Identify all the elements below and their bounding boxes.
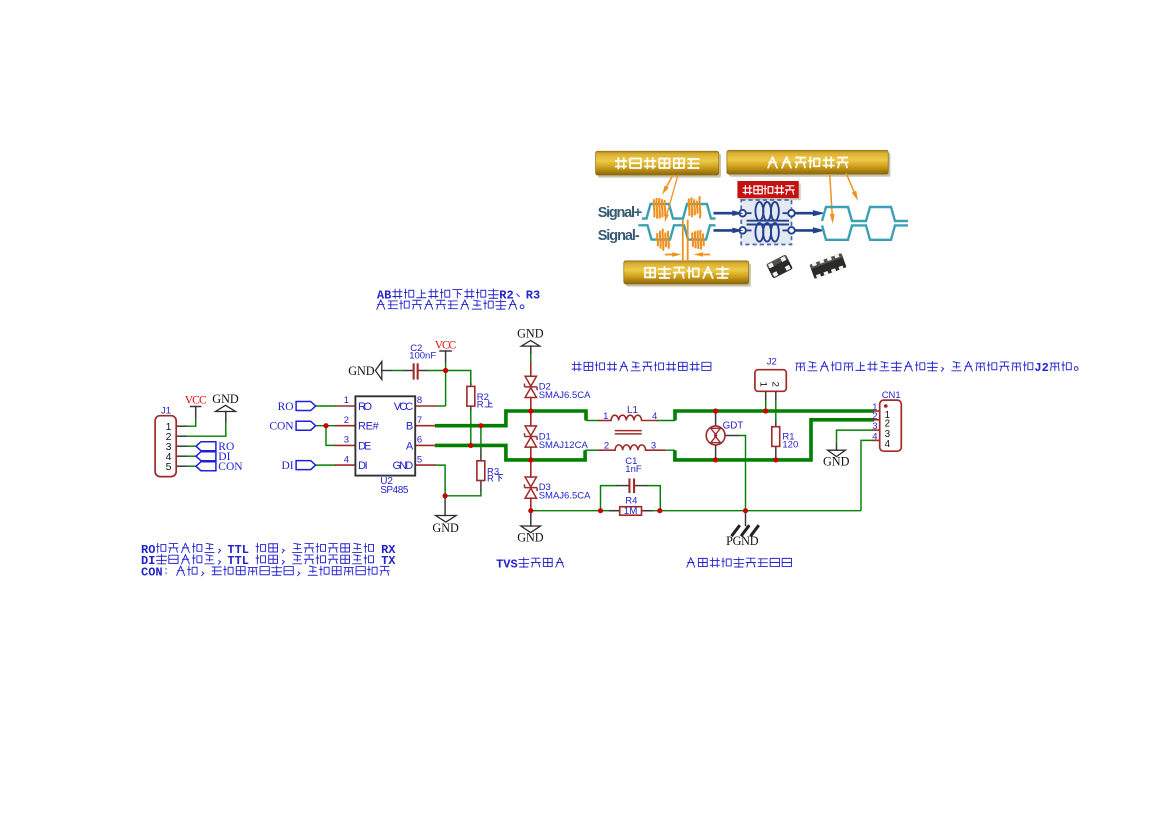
svg-text:5: 5 bbox=[417, 454, 422, 465]
svg-text:1: 1 bbox=[603, 411, 608, 422]
svg-text:GND: GND bbox=[348, 364, 375, 378]
svg-text:RO: RO bbox=[358, 401, 372, 413]
svg-text:J2: J2 bbox=[1034, 361, 1048, 375]
svg-text:VCC: VCC bbox=[435, 338, 457, 351]
svg-text:1nF: 1nF bbox=[625, 464, 642, 475]
svg-text:GDT: GDT bbox=[723, 420, 744, 431]
svg-text:GND: GND bbox=[517, 327, 544, 341]
svg-text:4: 4 bbox=[652, 411, 657, 422]
svg-text:VCC: VCC bbox=[394, 401, 413, 413]
svg-text:CON: CON bbox=[269, 421, 294, 433]
svg-text:7: 7 bbox=[417, 415, 422, 426]
svg-text:R2: R2 bbox=[499, 289, 513, 303]
svg-text:DE: DE bbox=[358, 440, 371, 452]
svg-text:DI: DI bbox=[358, 460, 368, 472]
svg-text:R: R bbox=[487, 474, 494, 485]
svg-text:SMAJ6.5CA: SMAJ6.5CA bbox=[539, 491, 591, 502]
svg-text:Signal+: Signal+ bbox=[598, 205, 643, 221]
svg-text:SMAJ6.5CA: SMAJ6.5CA bbox=[539, 390, 591, 401]
svg-text:SMAJ12CA: SMAJ12CA bbox=[539, 440, 589, 451]
svg-text:3: 3 bbox=[344, 435, 349, 446]
svg-text:5: 5 bbox=[166, 461, 172, 473]
svg-text:4: 4 bbox=[344, 454, 349, 465]
svg-text:A: A bbox=[406, 440, 414, 452]
svg-text:4: 4 bbox=[872, 431, 877, 442]
svg-text:1: 1 bbox=[758, 382, 769, 387]
svg-text:GND: GND bbox=[212, 392, 239, 406]
svg-text:CON: CON bbox=[141, 566, 163, 580]
svg-text:3: 3 bbox=[651, 440, 656, 451]
svg-text:PGND: PGND bbox=[726, 534, 759, 548]
svg-text:RE#: RE# bbox=[358, 421, 380, 433]
svg-text:2: 2 bbox=[770, 382, 781, 387]
svg-text:2: 2 bbox=[604, 440, 609, 451]
svg-text:GND: GND bbox=[823, 455, 850, 469]
svg-text:GND: GND bbox=[393, 460, 414, 472]
svg-text:CON: CON bbox=[218, 461, 243, 473]
svg-text:R: R bbox=[477, 400, 484, 411]
svg-text:120: 120 bbox=[782, 440, 798, 451]
svg-text:DI: DI bbox=[281, 460, 293, 472]
svg-text:L1: L1 bbox=[627, 405, 638, 416]
svg-text:VCC: VCC bbox=[185, 393, 207, 406]
svg-text:J1: J1 bbox=[161, 406, 171, 417]
svg-text:B: B bbox=[406, 421, 413, 433]
svg-text:CN1: CN1 bbox=[882, 390, 901, 401]
svg-text:GND: GND bbox=[517, 531, 544, 545]
svg-text:1: 1 bbox=[344, 395, 349, 406]
svg-text:8: 8 bbox=[417, 395, 422, 406]
svg-text:1M: 1M bbox=[624, 506, 638, 517]
svg-text:RO: RO bbox=[278, 401, 294, 413]
svg-text:GND: GND bbox=[432, 521, 459, 535]
svg-text:R4: R4 bbox=[625, 496, 637, 507]
svg-text:J2: J2 bbox=[767, 357, 777, 368]
svg-text:R3: R3 bbox=[526, 289, 540, 303]
svg-text:4: 4 bbox=[885, 439, 891, 450]
svg-text:2: 2 bbox=[344, 415, 349, 426]
svg-text:100nF: 100nF bbox=[409, 350, 436, 361]
svg-text:Signal-: Signal- bbox=[598, 228, 640, 244]
svg-text:SP485: SP485 bbox=[380, 485, 409, 496]
svg-text:TTL: TTL bbox=[227, 554, 249, 568]
svg-text:6: 6 bbox=[417, 435, 422, 446]
svg-text:TVS: TVS bbox=[496, 557, 518, 571]
